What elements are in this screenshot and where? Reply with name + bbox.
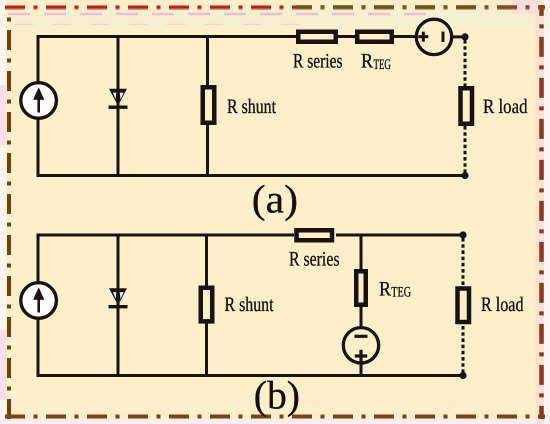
wire b diode branch bbox=[117, 234, 120, 378]
current source I1 (b) bbox=[21, 283, 57, 319]
wire b dashed upper bbox=[462, 238, 465, 287]
wire a diode branch bbox=[117, 35, 120, 177]
label R shunt (b) bbox=[225, 294, 274, 316]
border left bbox=[7, 10, 11, 419]
label R load (b) bbox=[481, 294, 524, 316]
resistor R load (b) bbox=[458, 289, 470, 323]
resistor R shunt (a) bbox=[203, 87, 215, 123]
wire b source to bottom bbox=[360, 362, 363, 377]
svg-text:TEG: TEG bbox=[374, 57, 392, 73]
svg-text:R shunt: R shunt bbox=[225, 294, 274, 316]
wire b shunt branch bbox=[205, 234, 208, 378]
wire b top bbox=[37, 234, 464, 237]
node a bottom-right bbox=[461, 172, 468, 179]
svg-text:R series: R series bbox=[293, 51, 343, 73]
svg-text:R load: R load bbox=[481, 294, 524, 316]
resistor R TEG (b) bbox=[356, 271, 366, 305]
wire b bottom bbox=[37, 374, 464, 377]
wire a dashed upper bbox=[464, 40, 467, 87]
label (b) bbox=[254, 373, 300, 418]
voltage source V1 (b) bbox=[343, 328, 378, 363]
svg-text:TEG: TEG bbox=[391, 285, 411, 301]
border top bbox=[5, 7, 545, 9]
svg-text:R shunt: R shunt bbox=[227, 96, 276, 118]
diode D1 (b) bbox=[109, 288, 128, 306]
wire a left branch bbox=[37, 35, 40, 177]
diode D1 (a) bbox=[109, 89, 128, 107]
resistor R TEG (a) bbox=[357, 32, 392, 42]
label R shunt (a) bbox=[227, 96, 276, 118]
label R series (b) bbox=[289, 248, 340, 270]
label R load (a) bbox=[483, 96, 528, 118]
border right bbox=[539, 5, 544, 419]
node b top-right bbox=[459, 231, 466, 238]
wire a bottom bbox=[37, 174, 466, 177]
svg-text:R: R bbox=[361, 51, 373, 73]
wire b TEG branch bbox=[360, 235, 363, 270]
node a top-right bbox=[461, 33, 468, 40]
label (a) bbox=[252, 177, 298, 222]
svg-text:(a): (a) bbox=[252, 177, 298, 222]
voltage source V1 (a) bbox=[416, 19, 451, 54]
wire a shunt branch bbox=[206, 35, 209, 177]
current source I1 (a) bbox=[21, 83, 57, 119]
wire a dashed lower bbox=[464, 126, 467, 173]
wire b TEG to source bbox=[360, 305, 363, 328]
svg-text:R load: R load bbox=[483, 96, 528, 118]
resistor R series (b) bbox=[297, 230, 333, 240]
label R series (a) bbox=[293, 51, 343, 73]
wire b dashed lower bbox=[462, 326, 465, 373]
resistor R series (a) bbox=[298, 32, 336, 42]
node b bottom-right bbox=[459, 372, 466, 379]
wire b left branch bbox=[37, 234, 40, 378]
svg-text:(b): (b) bbox=[254, 373, 300, 418]
resistor R load (a) bbox=[461, 88, 473, 124]
label R TEG (b) bbox=[379, 278, 411, 300]
label R TEG (a) bbox=[361, 51, 391, 73]
resistor R shunt (b) bbox=[201, 288, 213, 322]
wire a top bbox=[37, 35, 466, 38]
svg-text:R series: R series bbox=[289, 248, 340, 270]
svg-text:R: R bbox=[379, 278, 391, 300]
artifact pink dashes bbox=[8, 14, 440, 25]
border bottom bbox=[5, 415, 545, 419]
